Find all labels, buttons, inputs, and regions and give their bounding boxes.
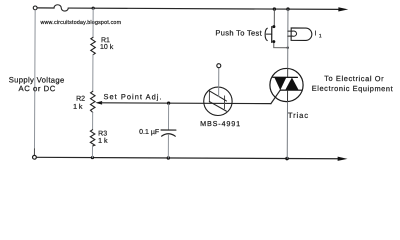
svg-text:I: I bbox=[315, 30, 317, 37]
SBS U1 upper slant bbox=[209, 91, 226, 101]
pushbutton lower contact bbox=[272, 40, 275, 43]
wire left rail dark lower tip bbox=[33, 149, 35, 155]
svg-text:MBS-4991: MBS-4991 bbox=[200, 119, 241, 128]
potentiometer R2 bbox=[90, 91, 95, 112]
pushbutton cap arc bbox=[265, 28, 267, 40]
svg-text:0.1 µF: 0.1 µF bbox=[139, 129, 159, 136]
fuse squiggle bbox=[54, 5, 68, 11]
triac bottom bar bbox=[280, 89, 302, 91]
lamp I1 filament loop bbox=[293, 31, 297, 36]
node capacitor tap bbox=[167, 101, 170, 104]
capacitor C1 0.1uF curved plate bbox=[162, 134, 176, 136]
triac Q1 circle bbox=[270, 68, 303, 101]
svg-text:1 k: 1 k bbox=[73, 104, 83, 111]
pushbutton upper contact bbox=[272, 25, 275, 28]
wire middle rail between R2 and R3 bbox=[92, 112, 94, 129]
SBS U1 right bar bbox=[223, 96, 225, 109]
svg-text:Triac: Triac bbox=[288, 111, 309, 120]
svg-text:AC or DC: AC or DC bbox=[19, 84, 56, 93]
terminal gate of U1 bbox=[217, 64, 221, 68]
terminal top-left bbox=[33, 6, 37, 10]
wire triac to bottom rail bbox=[286, 102, 288, 158]
wire pushbutton lower lead bbox=[274, 43, 288, 48]
svg-text:To Electrical Or: To Electrical Or bbox=[324, 74, 384, 83]
wire middle rail lower bbox=[91, 146, 93, 157]
SBS U1 lower slant bbox=[209, 102, 226, 112]
wire top rail to arrow bbox=[68, 8, 339, 9]
node top of R1 bbox=[92, 7, 95, 10]
lamp I1 filament stubs bbox=[288, 31, 293, 36]
triac right triangle bbox=[285, 77, 299, 90]
wire left rail bbox=[33, 10, 36, 155]
pushbutton movable bar bbox=[271, 27, 273, 43]
svg-text:www.circuitstoday.blogspot.com: www.circuitstoday.blogspot.com bbox=[41, 20, 122, 26]
resistor R1 bbox=[91, 37, 96, 55]
wire capacitor lower lead bbox=[167, 135, 169, 158]
wiper arrowhead of R2 bbox=[95, 101, 102, 105]
node pushbutton joins lamp branch bbox=[287, 47, 289, 49]
triac top bar bbox=[273, 76, 297, 78]
arrowhead top rail bbox=[338, 7, 348, 11]
wire capacitor upper lead bbox=[167, 104, 169, 130]
svg-text:Set Point Adj.: Set Point Adj. bbox=[104, 92, 163, 101]
SBS U1 MBS-4991 circle bbox=[204, 87, 233, 116]
svg-text:Electronic Equipment: Electronic Equipment bbox=[312, 84, 393, 93]
wire middle rail between R1 and R2 bbox=[92, 55, 94, 91]
triac bottom stub bbox=[287, 90, 289, 102]
SBS U1 left bar bbox=[208, 91, 210, 102]
terminal bottom-left bbox=[33, 155, 37, 159]
wire trigger line bbox=[101, 102, 270, 105]
wire pushbutton upper lead bbox=[273, 9, 275, 25]
svg-text:Push To Test: Push To Test bbox=[215, 28, 262, 37]
node top of lamp branch bbox=[286, 7, 289, 10]
triac top stub bbox=[287, 68, 289, 77]
node bottom of triac bbox=[285, 157, 289, 161]
capacitor C1 0.1uF top plate bbox=[161, 129, 176, 131]
node bottom of R3 bbox=[91, 156, 94, 159]
node top of pushbutton branch bbox=[273, 7, 276, 10]
wire top rail left segment bbox=[37, 7, 54, 9]
node bottom of capacitor bbox=[167, 156, 170, 159]
wire bottom rail bbox=[37, 157, 339, 158]
wire lamp branch vertical bbox=[287, 9, 289, 68]
svg-text:R3: R3 bbox=[98, 131, 107, 138]
lamp I1 envelope bbox=[291, 28, 312, 41]
wire gate lead of U1 bbox=[218, 68, 220, 97]
svg-text:R2: R2 bbox=[76, 96, 85, 103]
resistor R3 bbox=[90, 130, 95, 146]
pushbutton shaft bbox=[266, 33, 271, 35]
wire gate diagonal to triac bbox=[271, 90, 280, 104]
arrowhead bottom rail bbox=[338, 157, 348, 161]
svg-text:1 k: 1 k bbox=[98, 138, 108, 145]
triac left triangle bbox=[274, 77, 286, 90]
wire middle rail upper bbox=[92, 8, 94, 37]
svg-text:10 k: 10 k bbox=[100, 44, 114, 51]
svg-text:1: 1 bbox=[319, 33, 322, 39]
